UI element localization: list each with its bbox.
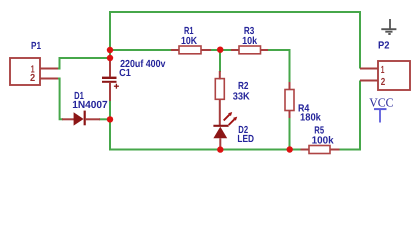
wire R5 to P2 pin2	[339, 81, 360, 150]
power VCC	[369, 96, 393, 123]
diode D1	[62, 111, 100, 126]
wire R1 to junction	[209, 49, 221, 51]
wire bottom rail	[110, 149, 302, 151]
svg-text:10K: 10K	[181, 36, 197, 47]
svg-text:100k: 100k	[312, 135, 334, 146]
junction dot node B (P1 pin1 / C1)	[107, 55, 113, 61]
resistor R5	[301, 146, 340, 154]
wire junction down to R2	[219, 50, 221, 72]
wire R4 bottom to bottom rail	[289, 117, 291, 150]
svg-text:180k: 180k	[300, 113, 321, 124]
junction dot node D (D1/C1/rail)	[107, 116, 113, 122]
svg-text:P2: P2	[378, 40, 390, 51]
wire junction to R3	[220, 49, 232, 51]
svg-text:33K: 33K	[233, 92, 251, 103]
svg-text:10k: 10k	[242, 36, 257, 47]
svg-text:VCC: VCC	[369, 96, 393, 110]
resistor R4	[285, 82, 294, 118]
junction dot node F (R4 on rail)	[287, 146, 293, 152]
wire node to R1	[110, 49, 173, 51]
resistor R1	[171, 46, 211, 54]
wire top net: C1 junction up, across top, down to P2 pin 1	[110, 12, 360, 69]
capacitor C1	[102, 59, 119, 101]
wire P1 pin1 to left column	[58, 58, 110, 69]
svg-text:2: 2	[30, 73, 35, 84]
connector P2	[360, 61, 410, 90]
wire P1 pin2 down to D1	[58, 79, 63, 120]
wire left column down from D1 node	[109, 100, 111, 151]
svg-text:P1: P1	[31, 41, 41, 52]
svg-text:1N4007: 1N4007	[72, 100, 108, 111]
resistor R3	[231, 46, 268, 54]
junction dot node E (D2 on rail)	[217, 146, 223, 152]
svg-text:LED: LED	[237, 134, 254, 145]
resistor R2	[215, 71, 224, 126]
svg-text:2: 2	[381, 77, 386, 88]
wire R3 to R4 top	[267, 50, 290, 83]
ground	[381, 19, 396, 34]
svg-text:1: 1	[381, 65, 385, 76]
svg-text:R2: R2	[238, 81, 249, 92]
svg-text:C1: C1	[119, 68, 131, 79]
junction dot node A (top wire / R1)	[107, 47, 113, 53]
connector P1	[10, 58, 58, 85]
wire D1 to node	[99, 118, 110, 120]
junction dot node C (R1/R3/R2)	[217, 47, 223, 53]
LED D2	[213, 112, 237, 149]
